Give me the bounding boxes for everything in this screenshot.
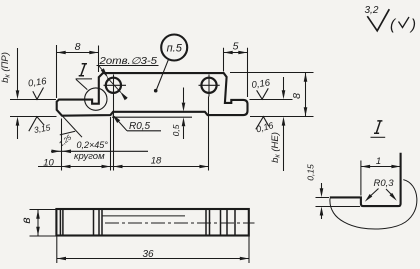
opposite diameter arrow on hole 1: [122, 94, 127, 100]
svg-text:кругом: кругом: [74, 151, 105, 162]
detail view wavy break line: [330, 180, 417, 229]
detail label I leader main view: [76, 79, 92, 90]
dim 36 extension lines: [57, 236, 249, 263]
svg-text:8: 8: [75, 41, 81, 53]
dim 5 extension lines: [224, 48, 248, 97]
hole 2: [201, 78, 216, 93]
roughness tick left top: [33, 88, 44, 100]
bottom view rectangle: [56, 209, 248, 236]
svg-text:8: 8: [291, 93, 303, 99]
svg-text:0,15: 0,15: [306, 164, 316, 181]
detail circle I around left notch: [85, 88, 107, 110]
leader from p.5 to surface dot: [157, 59, 169, 89]
roughness tick right bottom: [256, 117, 269, 130]
dim 8 top-left dimension line: [57, 52, 99, 54]
detail dim 1 extension lines: [360, 161, 362, 196]
detail view groove outline: [330, 153, 401, 206]
dim 8 right dimension line: [305, 73, 307, 117]
part outline main view: [57, 73, 248, 116]
svg-text:1: 1: [376, 156, 381, 167]
svg-text:R0,5: R0,5: [129, 121, 151, 132]
leader 2otv with arrow to hole 1: [99, 66, 121, 92]
dim v extension lines: [30, 210, 57, 237]
chamfer angle tick: [60, 131, 75, 135]
svg-text:в: в: [19, 217, 33, 223]
bottom view centerline: [105, 222, 255, 224]
dim 8 top-left extension lines: [57, 45, 99, 98]
dim 36 dimension line: [57, 258, 249, 260]
svg-text:bк (НЕ): bк (НЕ): [270, 132, 282, 163]
chamfer callout shelf: [51, 150, 148, 152]
R0,5 leader: [114, 116, 161, 131]
svg-text:bк (ПР): bк (ПР): [0, 52, 11, 83]
dim 0,5 extension line: [112, 116, 192, 118]
svg-text:18: 18: [151, 156, 162, 167]
svg-text:п.5: п.5: [167, 43, 183, 55]
svg-text:R0,3: R0,3: [374, 178, 395, 189]
small check in parens: [399, 17, 410, 28]
dim bk(PR) dimension line with outside arrows: [17, 48, 19, 139]
detail dim 0,15 dimension line outside arrows: [321, 183, 323, 219]
svg-text:3,2: 3,2: [365, 5, 379, 16]
dim v dimension line: [37, 210, 39, 236]
right side extension lines: [230, 73, 314, 117]
dims 10 and 18 dimension line: [38, 166, 209, 168]
dim bk(NE) right dimension line with outside arrows: [283, 77, 285, 171]
dim 0,5 dimension line with outside arrows: [183, 88, 185, 140]
svg-text:10: 10: [43, 157, 54, 168]
dims 10 and 18 extension lines: [62, 117, 111, 171]
roughness tick left bottom: [29, 117, 44, 132]
svg-text:5: 5: [233, 41, 239, 53]
dim 5 dimension line: [224, 52, 248, 54]
svg-text:0,2×45°: 0,2×45°: [77, 140, 109, 150]
hole 2 centerlines: [199, 75, 220, 171]
detail view I label strokes: [374, 121, 382, 133]
roughness tick right top: [257, 88, 269, 99]
detail dim 0,15 extension lines: [316, 198, 361, 207]
hole 1 centerlines: [104, 75, 127, 171]
left side extension lines bk(PR): [10, 100, 57, 117]
svg-text:): ): [409, 17, 416, 34]
label I strokes main view: [79, 64, 87, 76]
svg-text:2отв.∅3-5: 2отв.∅3-5: [98, 56, 157, 67]
bottom view inner horizontal edge: [102, 215, 185, 217]
hole 1: [106, 78, 121, 93]
detail R0,3 leaders: [369, 189, 379, 198]
detail dim 1 dimension line: [361, 166, 401, 168]
general roughness check mark top right: [367, 9, 389, 31]
svg-text:0,5: 0,5: [171, 124, 181, 136]
callout circle p.5: [161, 35, 187, 61]
underline of text 2otv: [97, 65, 159, 67]
chamfer extension diagonal bottom-left: [57, 110, 82, 137]
bottom view inner edge lines: [60, 209, 235, 236]
svg-text:36: 36: [142, 249, 154, 260]
